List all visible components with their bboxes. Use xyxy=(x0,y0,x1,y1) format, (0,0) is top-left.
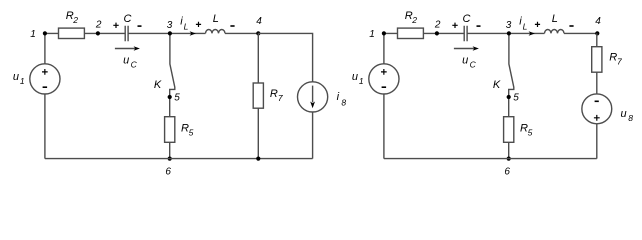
svg-text:R: R xyxy=(609,51,617,63)
svg-text:7: 7 xyxy=(278,93,283,103)
svg-text:7: 7 xyxy=(617,57,622,67)
svg-text:8: 8 xyxy=(341,97,346,107)
svg-text:R: R xyxy=(270,88,278,100)
svg-text:8: 8 xyxy=(628,113,633,123)
svg-text:u: u xyxy=(621,108,627,120)
